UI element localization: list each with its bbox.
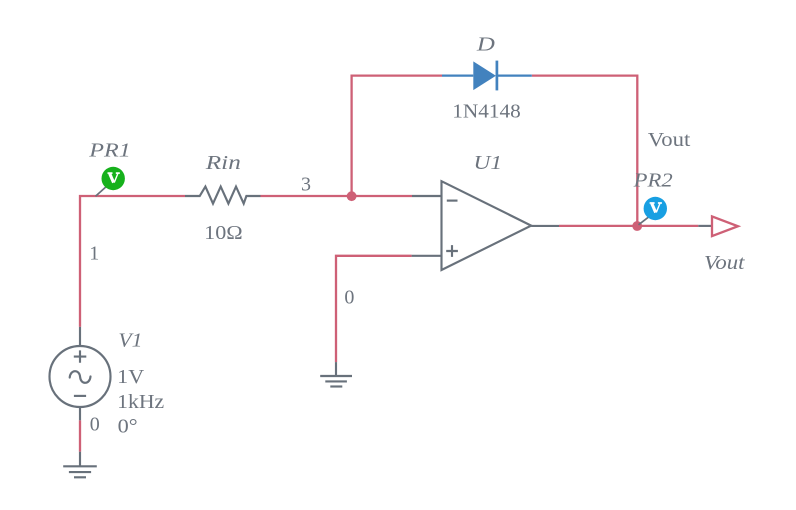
svg-text:0°: 0°	[118, 416, 138, 438]
svg-text:0: 0	[344, 286, 354, 308]
svg-text:PR1: PR1	[88, 140, 131, 162]
svg-text:U1: U1	[474, 152, 503, 174]
svg-text:3: 3	[301, 173, 311, 195]
svg-text:Vout: Vout	[704, 252, 745, 274]
svg-text:V1: V1	[118, 329, 142, 351]
svg-text:1N4148: 1N4148	[452, 101, 521, 123]
svg-text:1kHz: 1kHz	[117, 391, 164, 413]
svg-text:10Ω: 10Ω	[204, 222, 243, 244]
svg-text:Vout: Vout	[648, 129, 691, 151]
svg-text:PR2: PR2	[633, 170, 673, 192]
svg-text:1: 1	[89, 242, 99, 264]
svg-text:1V: 1V	[117, 366, 145, 388]
svg-text:D: D	[476, 33, 496, 55]
svg-text:0: 0	[90, 414, 100, 436]
svg-text:Rin: Rin	[205, 152, 241, 174]
